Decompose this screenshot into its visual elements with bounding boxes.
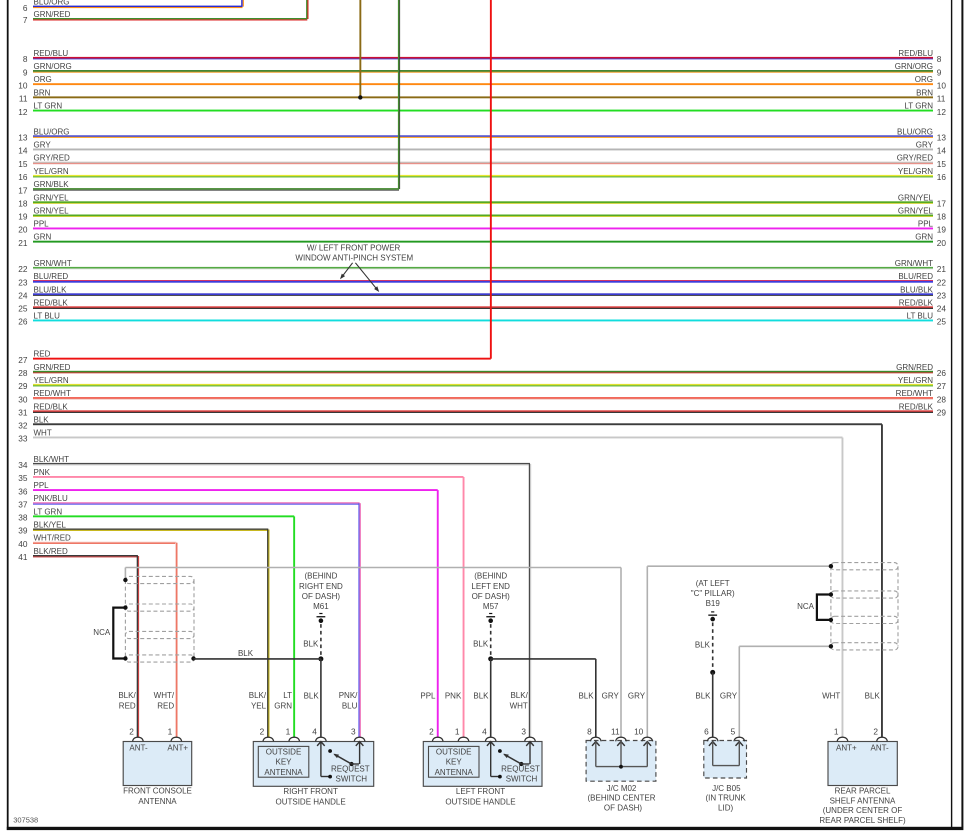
svg-text:4: 4 (312, 726, 317, 736)
wire GRY rear shield to J/C M02 pin 10 (647, 566, 831, 737)
svg-text:RED: RED (34, 350, 51, 359)
wire 41 BLK/RED (18, 547, 138, 562)
svg-text:PNK/BLU: PNK/BLU (34, 494, 68, 503)
svg-text:7: 7 (23, 15, 28, 25)
wire 19 GRN/YEL (18, 207, 946, 222)
wire BRN riser (359, 0, 361, 97)
frame left border (7, 0, 9, 830)
svg-text:33: 33 (18, 434, 28, 444)
svg-text:OUTSIDE HANDLE: OUTSIDE HANDLE (445, 798, 515, 807)
svg-text:GRY: GRY (720, 691, 738, 700)
svg-text:(BEHIND CENTER: (BEHIND CENTER (587, 794, 655, 803)
connector REAR PARCEL SHELF ANTENNA (819, 691, 906, 825)
svg-text:LT GRN: LT GRN (904, 102, 933, 111)
svg-text:B19: B19 (706, 599, 721, 608)
svg-text:12: 12 (18, 107, 28, 117)
label sheet number 307538 (13, 816, 38, 825)
svg-text:BLU/RED: BLU/RED (34, 272, 69, 281)
svg-text:24: 24 (18, 291, 28, 301)
svg-text:21: 21 (18, 238, 28, 248)
svg-text:GRN/WHT: GRN/WHT (34, 259, 72, 268)
svg-text:39: 39 (18, 526, 28, 536)
svg-text:40: 40 (18, 539, 28, 549)
svg-text:GRY/RED: GRY/RED (897, 154, 934, 163)
wire GRY front shield to J/C M02 pin 11 (125, 568, 621, 738)
wire 30 RED/WHT (18, 389, 946, 404)
connector RIGHT FRONT OUTSIDE HANDLE with request switch (249, 691, 374, 807)
svg-text:24: 24 (937, 304, 947, 314)
svg-text:23: 23 (937, 291, 947, 301)
svg-text:20: 20 (18, 225, 28, 235)
svg-text:8: 8 (23, 54, 28, 64)
svg-text:BLK: BLK (303, 639, 319, 648)
svg-text:(BEHIND: (BEHIND (474, 572, 507, 581)
svg-text:(IN TRUNK: (IN TRUNK (705, 794, 746, 803)
svg-text:GRN/RED: GRN/RED (34, 363, 71, 372)
svg-text:3: 3 (351, 726, 356, 736)
svg-text:GRY: GRY (34, 141, 52, 150)
svg-text:13: 13 (18, 133, 28, 143)
svg-text:20: 20 (937, 238, 947, 248)
svg-text:GRN: GRN (274, 701, 292, 710)
svg-text:PNK/: PNK/ (339, 691, 358, 700)
wire 29 YEL/GRN (18, 376, 946, 391)
wire BLK front shield to M61 junction (194, 658, 321, 660)
svg-text:GRN/ORG: GRN/ORG (34, 62, 72, 71)
svg-text:25: 25 (937, 317, 947, 327)
junction connector J/C M02 (578, 691, 655, 812)
svg-text:BLK/: BLK/ (249, 691, 267, 700)
svg-text:26: 26 (18, 317, 28, 327)
svg-text:28: 28 (937, 394, 947, 404)
svg-text:9: 9 (937, 67, 942, 77)
svg-text:YEL/GRN: YEL/GRN (34, 167, 69, 176)
svg-text:GRN/BLK: GRN/BLK (34, 180, 70, 189)
svg-text:8: 8 (587, 726, 592, 736)
node front shield dots (123, 578, 195, 661)
svg-text:GRN/ORG: GRN/ORG (895, 62, 933, 71)
wire 34 BLK/WHT (18, 455, 530, 470)
svg-text:SWITCH: SWITCH (336, 775, 368, 784)
svg-text:ORG: ORG (915, 75, 933, 84)
svg-text:4: 4 (482, 726, 487, 736)
svg-text:(UNDER CENTER OF: (UNDER CENTER OF (823, 806, 903, 815)
svg-text:J/C B05: J/C B05 (712, 784, 741, 793)
svg-text:RED/BLU: RED/BLU (34, 49, 69, 58)
svg-text:GRY: GRY (628, 691, 646, 700)
svg-text:17: 17 (18, 185, 28, 195)
wire BLK M57 junction to J/C M02 pin 8 (491, 659, 596, 737)
svg-text:BLU/ORG: BLU/ORG (34, 0, 70, 7)
svg-text:BLK: BLK (238, 649, 254, 658)
svg-text:ANT+: ANT+ (167, 744, 188, 753)
svg-text:BLK/WHT: BLK/WHT (34, 455, 70, 464)
svg-text:ANTENNA: ANTENNA (264, 768, 303, 777)
wire 32 BLK (18, 415, 882, 430)
wire 15 GRY/RED (18, 154, 946, 169)
svg-text:OF DASH): OF DASH) (472, 592, 511, 601)
svg-text:6: 6 (704, 726, 709, 736)
svg-text:36: 36 (18, 486, 28, 496)
svg-text:BLK: BLK (695, 640, 711, 649)
wire 26 LT BLU (18, 312, 946, 327)
svg-text:W/ LEFT FRONT POWER: W/ LEFT FRONT POWER (307, 244, 401, 253)
svg-text:22: 22 (18, 264, 28, 274)
svg-text:14: 14 (937, 146, 947, 156)
svg-text:YEL/GRN: YEL/GRN (898, 376, 933, 385)
wire 39 BLK/YEL (18, 521, 268, 536)
shield front console twisted pair (125, 576, 194, 662)
svg-text:BLU/ORG: BLU/ORG (897, 127, 933, 136)
bracket NCA front (113, 608, 125, 659)
svg-text:18: 18 (937, 212, 947, 222)
svg-text:LT BLU: LT BLU (907, 312, 934, 321)
svg-text:YEL: YEL (251, 701, 267, 710)
svg-text:29: 29 (18, 381, 28, 391)
svg-text:"C" PILLAR): "C" PILLAR) (691, 589, 735, 598)
svg-text:BLK: BLK (473, 639, 489, 648)
wire BLK/YEL drop to right handle pin 2 (267, 530, 269, 738)
ground B19 (691, 579, 735, 737)
svg-text:LEFT END: LEFT END (471, 582, 510, 591)
svg-text:PPL: PPL (918, 220, 934, 229)
svg-text:28: 28 (18, 368, 28, 378)
label NCA front (93, 628, 111, 637)
svg-text:RED/BLK: RED/BLK (899, 298, 934, 307)
svg-text:WHT: WHT (510, 701, 528, 710)
svg-text:1: 1 (455, 726, 460, 736)
svg-text:OUTSIDE: OUTSIDE (436, 747, 472, 756)
svg-text:NCA: NCA (93, 628, 111, 637)
svg-text:ANTENNA: ANTENNA (138, 797, 177, 806)
svg-text:GRN/YEL: GRN/YEL (898, 207, 934, 216)
wire 33 WHT (18, 429, 842, 444)
svg-text:3: 3 (521, 726, 526, 736)
svg-text:BLK: BLK (695, 691, 711, 700)
wire 40 WHT/RED (18, 534, 176, 549)
svg-text:BLK: BLK (304, 691, 320, 700)
svg-text:RIGHT FRONT: RIGHT FRONT (283, 787, 338, 796)
svg-text:41: 41 (18, 552, 28, 562)
svg-text:11: 11 (937, 94, 946, 104)
svg-text:10: 10 (937, 80, 947, 90)
svg-text:2: 2 (873, 726, 878, 736)
svg-text:16: 16 (18, 172, 28, 182)
svg-text:BRN: BRN (34, 88, 51, 97)
wire 18 GRN/YEL (18, 193, 946, 208)
svg-text:WHT: WHT (34, 429, 52, 438)
svg-text:38: 38 (18, 513, 28, 523)
svg-text:RED/BLK: RED/BLK (34, 298, 69, 307)
svg-text:ORG: ORG (34, 75, 52, 84)
frame right inner border (951, 0, 952, 827)
svg-text:SHELF ANTENNA: SHELF ANTENNA (830, 796, 896, 805)
svg-text:BLK/RED: BLK/RED (34, 547, 68, 556)
wire 13 BLU/ORG (18, 127, 946, 142)
svg-text:LID): LID) (718, 803, 733, 812)
svg-text:2: 2 (129, 726, 134, 736)
svg-text:BLK/: BLK/ (510, 691, 528, 700)
wire 6 BLU/ORG (23, 0, 243, 13)
svg-text:WINDOW ANTI-PINCH SYSTEM: WINDOW ANTI-PINCH SYSTEM (295, 253, 413, 262)
node BRN junction on wire 11 (358, 95, 362, 99)
wire WHT/RED drop to front console pin 1 (175, 543, 177, 738)
wire 16 YEL/GRN (18, 167, 946, 182)
frame bottom border (7, 827, 964, 830)
svg-text:KEY: KEY (446, 758, 463, 767)
svg-text:13: 13 (937, 133, 947, 143)
wire PNK drop to left handle pin 1 (463, 477, 465, 737)
svg-text:BLK: BLK (473, 691, 489, 700)
ground M57 (471, 572, 510, 738)
svg-text:15: 15 (937, 159, 947, 169)
svg-text:GRY/RED: GRY/RED (34, 154, 71, 163)
wire 37 PNK/BLU (18, 494, 359, 509)
svg-text:6: 6 (23, 3, 28, 13)
svg-text:17: 17 (937, 199, 947, 209)
svg-text:PNK: PNK (445, 691, 462, 700)
wire 25 RED/BLK (18, 298, 946, 313)
wire 6 BLU/ORG riser (241, 0, 244, 7)
wire 9 GRN/ORG (23, 62, 942, 77)
connector FRONT CONSOLE ANTENNA (118, 691, 192, 806)
svg-text:30: 30 (18, 394, 28, 404)
svg-text:BLU: BLU (342, 701, 358, 710)
svg-text:GRN/YEL: GRN/YEL (34, 193, 70, 202)
svg-text:BLK: BLK (865, 691, 881, 700)
connector LEFT FRONT OUTSIDE HANDLE with request switch (420, 691, 542, 807)
svg-text:18: 18 (18, 199, 28, 209)
wire 36 PPL (18, 481, 437, 496)
wire 12 LT GRN (18, 102, 946, 117)
svg-text:OUTSIDE: OUTSIDE (266, 747, 302, 756)
wire 21 GRN (18, 233, 946, 248)
wire 24 BLU/BLK (18, 285, 946, 300)
wire 14 GRY (18, 141, 946, 156)
svg-text:BLK/: BLK/ (118, 691, 136, 700)
bracket NCA rear (817, 595, 831, 620)
svg-text:BLU/BLK: BLU/BLK (900, 285, 934, 294)
wire 17 GRN/BLK riser (398, 0, 400, 189)
wire PPL drop to left handle pin 2 (437, 490, 439, 737)
svg-text:25: 25 (18, 304, 28, 314)
svg-text:22: 22 (937, 277, 947, 287)
svg-text:1: 1 (286, 726, 291, 736)
svg-text:RED/BLK: RED/BLK (899, 402, 934, 411)
wire WHT drop to rear antenna pin 1 (842, 438, 844, 738)
svg-text:1: 1 (834, 726, 839, 736)
wire 38 LT GRN (18, 507, 294, 522)
svg-text:RED: RED (157, 701, 174, 710)
svg-text:BRN: BRN (916, 88, 933, 97)
svg-text:WHT/RED: WHT/RED (34, 534, 72, 543)
svg-text:LT: LT (283, 691, 292, 700)
svg-text:GRN: GRN (915, 233, 933, 242)
wire 8 RED/BLU (23, 49, 942, 64)
svg-text:BLK: BLK (34, 415, 50, 424)
wire 22 GRN/WHT (18, 259, 946, 274)
svg-text:FRONT CONSOLE: FRONT CONSOLE (123, 787, 192, 796)
svg-text:LT BLU: LT BLU (34, 312, 61, 321)
svg-text:REAR PARCEL SHELF): REAR PARCEL SHELF) (819, 816, 906, 825)
svg-text:16: 16 (937, 172, 947, 182)
svg-text:RED/WHT: RED/WHT (34, 389, 71, 398)
wire 7 GRN/RED (23, 10, 307, 25)
svg-text:NCA: NCA (797, 602, 815, 611)
svg-text:BLU/RED: BLU/RED (898, 272, 933, 281)
wire GRY rear shield to J/C B05 pin 5 (739, 646, 831, 737)
svg-text:2: 2 (429, 726, 434, 736)
wire 17 GRN/BLK (18, 180, 399, 195)
svg-text:OF DASH): OF DASH) (302, 592, 341, 601)
svg-text:RIGHT END: RIGHT END (299, 582, 343, 591)
svg-text:YEL/GRN: YEL/GRN (898, 167, 933, 176)
wire 27 RED riser (490, 0, 492, 359)
svg-text:GRY: GRY (602, 691, 620, 700)
junction connector J/C B05 (695, 691, 746, 812)
wire 20 PPL (18, 220, 946, 235)
svg-text:M57: M57 (483, 602, 499, 611)
label BLK at B19 dashed (695, 640, 711, 649)
svg-text:PNK: PNK (34, 468, 51, 477)
svg-text:J/C M02: J/C M02 (607, 784, 637, 793)
svg-text:32: 32 (18, 421, 28, 431)
svg-text:OF DASH): OF DASH) (604, 803, 643, 812)
svg-text:ANT+: ANT+ (836, 744, 857, 753)
svg-text:GRN/RED: GRN/RED (34, 10, 71, 19)
svg-text:21: 21 (937, 264, 947, 274)
svg-text:BLU/BLK: BLU/BLK (34, 285, 68, 294)
wire 11 BRN (19, 88, 946, 103)
svg-text:14: 14 (18, 146, 28, 156)
frame right outer border (961, 0, 963, 827)
wire BLK/WHT drop to left handle pin 3 (529, 464, 531, 737)
svg-text:REAR PARCEL: REAR PARCEL (835, 786, 891, 795)
svg-text:12: 12 (937, 107, 947, 117)
svg-text:1: 1 (168, 726, 173, 736)
svg-text:KEY: KEY (275, 758, 292, 767)
svg-text:15: 15 (18, 159, 28, 169)
wire 27 RED (18, 350, 491, 365)
svg-text:10: 10 (18, 80, 28, 90)
svg-text:GRN/YEL: GRN/YEL (34, 207, 70, 216)
label BLK at M57 dashed (473, 639, 489, 648)
shield rear parcel twisted pair (831, 563, 898, 650)
svg-text:PPL: PPL (34, 220, 50, 229)
svg-text:2: 2 (260, 726, 265, 736)
svg-text:GRN/WHT: GRN/WHT (895, 259, 933, 268)
svg-text:YEL/GRN: YEL/GRN (34, 376, 69, 385)
svg-text:RED/BLK: RED/BLK (34, 402, 69, 411)
svg-text:LT GRN: LT GRN (34, 102, 63, 111)
label NCA rear (797, 602, 815, 611)
svg-text:31: 31 (18, 408, 28, 418)
wire 7 GRN/RED riser (306, 0, 308, 19)
svg-text:34: 34 (18, 460, 28, 470)
svg-text:WHT: WHT (822, 691, 840, 700)
svg-text:8: 8 (937, 54, 942, 64)
ground M61 (299, 572, 343, 738)
label BLK at M61 dashed (303, 639, 319, 648)
svg-text:(BEHIND: (BEHIND (304, 572, 337, 581)
wire BLK drop to rear antenna pin 2 (881, 424, 883, 737)
svg-text:LT GRN: LT GRN (34, 507, 63, 516)
svg-text:GRY: GRY (916, 141, 934, 150)
svg-text:ANT-: ANT- (129, 744, 148, 753)
svg-text:LEFT FRONT: LEFT FRONT (456, 787, 505, 796)
svg-text:PPL: PPL (34, 481, 50, 490)
svg-text:RED/BLU: RED/BLU (898, 49, 933, 58)
svg-text:37: 37 (18, 499, 28, 509)
label BLK on shield-M61 wire (238, 649, 254, 658)
svg-text:REQUEST: REQUEST (331, 765, 370, 774)
svg-text:REQUEST: REQUEST (501, 765, 540, 774)
wire PNK/BLU drop to right handle pin 3 (358, 503, 361, 737)
svg-text:WHT/: WHT/ (154, 691, 175, 700)
svg-text:GRN/YEL: GRN/YEL (898, 193, 934, 202)
svg-text:10: 10 (634, 726, 644, 736)
svg-text:(AT LEFT: (AT LEFT (696, 579, 730, 588)
svg-text:M61: M61 (313, 602, 329, 611)
wire 31 RED/BLK (18, 402, 946, 417)
svg-text:5: 5 (731, 726, 736, 736)
svg-text:GRN/RED: GRN/RED (896, 363, 933, 372)
svg-text:BLU/ORG: BLU/ORG (34, 127, 70, 136)
svg-text:9: 9 (23, 67, 28, 77)
svg-text:BLK: BLK (578, 691, 594, 700)
svg-text:RED: RED (119, 701, 136, 710)
svg-text:29: 29 (937, 408, 947, 418)
svg-text:BLK/YEL: BLK/YEL (34, 521, 67, 530)
svg-text:19: 19 (18, 212, 28, 222)
svg-text:11: 11 (611, 726, 620, 736)
svg-text:23: 23 (18, 277, 28, 287)
wire 35 PNK (18, 468, 463, 483)
note W/ LEFT FRONT POWER WINDOW ANTI-PINCH SYSTEM (295, 244, 413, 292)
svg-text:OUTSIDE HANDLE: OUTSIDE HANDLE (275, 798, 345, 807)
svg-text:27: 27 (18, 355, 28, 365)
svg-text:27: 27 (937, 381, 947, 391)
wire 23 BLU/RED (18, 272, 946, 287)
wire LT GRN drop to right handle pin 1 (293, 516, 295, 737)
svg-text:35: 35 (18, 473, 28, 483)
svg-text:PPL: PPL (420, 691, 436, 700)
svg-text:26: 26 (937, 368, 947, 378)
svg-text:19: 19 (937, 225, 947, 235)
svg-text:ANTENNA: ANTENNA (435, 768, 474, 777)
svg-text:RED/WHT: RED/WHT (896, 389, 933, 398)
svg-text:GRN: GRN (34, 233, 52, 242)
svg-text:SWITCH: SWITCH (506, 775, 538, 784)
wire 28 GRN/RED (18, 363, 946, 378)
wire BLK/RED drop to front console pin 2 (137, 556, 139, 737)
svg-text:307538: 307538 (13, 816, 38, 825)
node rear shield dots (829, 564, 833, 649)
svg-text:ANT-: ANT- (871, 744, 890, 753)
svg-text:11: 11 (19, 94, 28, 104)
wire 10 ORG (18, 75, 946, 90)
